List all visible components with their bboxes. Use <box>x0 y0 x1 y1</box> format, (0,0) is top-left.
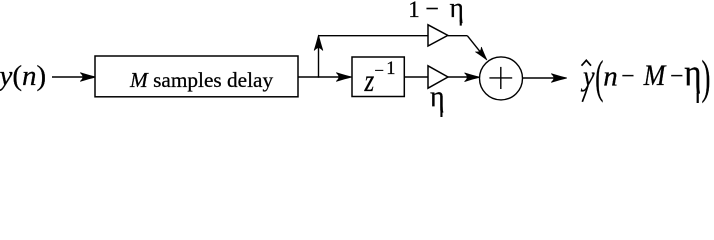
wire delay output to junction <box>298 76 319 78</box>
block M samples delay <box>95 56 298 97</box>
svg-text:M samples delay: M samples delay <box>129 68 273 92</box>
adder summing junction circle <box>480 57 523 100</box>
svg-text:−: − <box>425 0 439 23</box>
node output label y-hat(n - M - eta) <box>580 51 710 104</box>
adder plus sign <box>489 67 512 89</box>
wire diagonal into adder with arrowhead <box>467 36 489 62</box>
svg-text:η: η <box>430 80 445 113</box>
svg-text:1: 1 <box>408 0 420 22</box>
svg-text:): ) <box>702 51 711 104</box>
label z^-1 <box>364 59 396 99</box>
wire input arrow into delay block <box>52 73 96 81</box>
svg-text:η: η <box>684 51 701 94</box>
wire eta triangle to adder with arrowhead <box>448 73 480 81</box>
block z^-1 <box>352 57 404 97</box>
wire output arrow <box>523 74 567 82</box>
label eta <box>430 80 445 117</box>
gain amplifier triangle (eta) <box>428 66 448 88</box>
wire triangle apex out <box>448 35 468 37</box>
svg-text:−: − <box>621 63 634 89</box>
wire z block to eta triangle <box>404 76 428 78</box>
svg-text:−: − <box>374 61 384 80</box>
svg-text:y(n): y(n) <box>0 60 46 92</box>
svg-text:M: M <box>643 60 667 93</box>
svg-text:z: z <box>364 63 375 99</box>
svg-text:1: 1 <box>386 59 395 79</box>
wire top rail <box>319 35 429 37</box>
gain amplifier triangle (1-eta) <box>428 25 448 46</box>
wire junction to z block with arrowhead <box>319 73 352 81</box>
node junction <box>318 76 319 77</box>
label 1 - eta <box>408 0 464 26</box>
svg-text:n: n <box>603 61 618 93</box>
svg-text:−: − <box>670 63 683 89</box>
wire junction branch up with arrowhead <box>314 35 322 77</box>
svg-text:(: ( <box>595 52 603 103</box>
